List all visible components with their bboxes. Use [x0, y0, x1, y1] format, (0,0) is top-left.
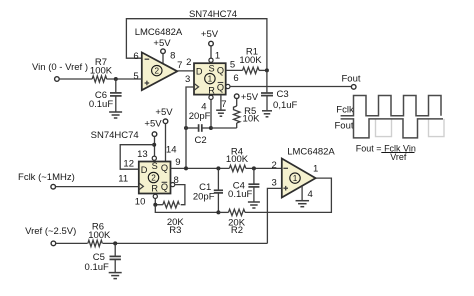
flip-flop U1a (SN74HC74 first half) — [194, 63, 226, 95]
wire U1 noninverting input to Vref rail — [267, 188, 281, 243]
svg-text:0.1uF: 0.1uF — [85, 262, 109, 273]
wire Vref to R6 — [56, 242, 88, 244]
svg-text:20pF: 20pF — [189, 111, 211, 122]
power +5V label for R5 — [241, 92, 259, 103]
svg-text:7: 7 — [177, 60, 182, 71]
pin 8 label U2 — [170, 51, 175, 62]
svg-text:0.1uF: 0.1uF — [89, 99, 113, 110]
resistor R2 — [218, 209, 245, 236]
pin 5 label U2 — [133, 71, 138, 82]
node junction R6/C5 — [113, 241, 117, 245]
node junction R3/R-pin — [153, 203, 157, 207]
svg-text:Vref (~2.5V): Vref (~2.5V) — [25, 226, 76, 237]
svg-text:1: 1 — [208, 75, 213, 84]
op-amp U1 — [282, 159, 316, 198]
svg-text:+5V: +5V — [241, 92, 259, 103]
power +5V terminal U1b S line — [152, 132, 157, 156]
wire pin10 node down to bottom rail — [155, 205, 218, 213]
svg-text:Vref: Vref — [390, 152, 407, 162]
wire U1a Q to R1 — [226, 69, 243, 71]
svg-text:+5V: +5V — [153, 38, 171, 49]
svg-text:+5V: +5V — [144, 119, 162, 130]
resistor R7 — [90, 57, 113, 82]
ground U1a pin 7 — [216, 95, 226, 117]
wire U1a R pin down — [210, 100, 212, 129]
input terminal Vref — [25, 226, 76, 246]
wire U1b D to S-line loop — [120, 145, 154, 170]
power +5V terminal U1b pin 14 — [163, 119, 168, 162]
wire R3 to U1b R pin — [155, 199, 163, 205]
svg-text:0,1uF: 0,1uF — [273, 100, 297, 111]
svg-text:Fout: Fout — [341, 73, 360, 84]
svg-text:20pF: 20pF — [193, 192, 215, 203]
pin 14 label U1b — [166, 145, 177, 156]
pin 5 label U1a Q — [230, 60, 235, 71]
node junction D-loop/S line — [152, 143, 156, 147]
pin 11 label U1b CLK — [118, 174, 128, 185]
svg-text:3: 3 — [185, 74, 190, 85]
waveform Fout square wave — [341, 119, 443, 138]
svg-text:8: 8 — [170, 51, 175, 62]
flip-flop U1b (SN74HC74 second half) — [139, 161, 171, 194]
svg-text:10K: 10K — [243, 113, 261, 124]
wire U1a Qbar to Fout — [230, 86, 351, 88]
capacitor C2 — [186, 111, 211, 146]
wire Fclk to U1b CLK — [56, 186, 139, 188]
waveform label Fclk — [336, 104, 354, 115]
capacitor C1 — [193, 168, 223, 212]
pin 2 label U1a D — [186, 57, 191, 68]
power +5V terminal R5 — [234, 94, 239, 99]
formula Fout = Fclk Vin / Vref — [356, 143, 416, 162]
input terminal Vin — [32, 62, 88, 81]
svg-text:100K: 100K — [90, 66, 113, 77]
node junction C1 bottom — [216, 210, 220, 214]
pin 2 label U1 — [272, 160, 277, 171]
wire clock line to U1a CLK — [186, 87, 194, 168]
svg-text:100K: 100K — [226, 154, 249, 165]
resistor R3 — [163, 202, 185, 236]
svg-text:13: 13 — [137, 149, 148, 160]
svg-text:Q: Q — [161, 182, 168, 192]
svg-text:7: 7 — [221, 99, 226, 110]
svg-text:9: 9 — [175, 157, 180, 168]
svg-text:5: 5 — [133, 71, 138, 82]
waveform Fout gated pulses (faint, skipped) — [376, 119, 445, 137]
wire U2 output to flip-flop U1a D input — [177, 70, 194, 72]
waveform Fclk square wave — [341, 96, 441, 116]
svg-text:100K: 100K — [239, 55, 262, 66]
pin 1 label U1 — [313, 164, 318, 175]
resistor R6 — [88, 221, 111, 246]
pin 13 label U1b — [137, 149, 148, 160]
ground below C3 — [262, 111, 272, 117]
svg-text:R: R — [208, 85, 215, 95]
svg-text:6: 6 — [233, 73, 238, 84]
pin 7 label U2 — [177, 60, 182, 71]
resistor R4 — [226, 146, 249, 171]
reset bubble U1a R input — [209, 95, 213, 99]
svg-text:Fclk (~1MHz): Fclk (~1MHz) — [18, 172, 75, 183]
svg-text:12: 12 — [123, 158, 134, 169]
node junction C1 top — [216, 166, 220, 170]
svg-text:Q: Q — [161, 163, 168, 173]
preset bubble U1a S input — [209, 58, 213, 62]
svg-text:SN74HC74: SN74HC74 — [91, 130, 139, 141]
node junction C2/clock line — [184, 126, 188, 130]
output bubble U1b Qbar — [171, 183, 175, 187]
svg-text:+5V: +5V — [201, 29, 219, 40]
node junction R1/C3/feedback — [265, 68, 269, 72]
pin 7 label U1a GND — [221, 99, 226, 110]
ground U1 pin 4 — [296, 186, 310, 207]
op-amp U1 label LMC6482A — [287, 146, 335, 157]
svg-text:C2: C2 — [195, 135, 207, 146]
svg-text:2: 2 — [155, 67, 160, 76]
node junction C4 top — [252, 166, 256, 170]
svg-text:10: 10 — [135, 197, 146, 208]
capacitor C4 — [228, 168, 259, 201]
wire U1b Q to op-amp U1 inverting input — [171, 167, 282, 169]
input terminal Fclk — [18, 172, 75, 189]
svg-text:R3: R3 — [169, 225, 181, 236]
svg-text:Q: Q — [217, 82, 224, 92]
svg-text:4: 4 — [308, 189, 313, 200]
wire R1 to feedback node — [259, 69, 267, 71]
svg-text:R: R — [151, 184, 158, 194]
svg-text:Q: Q — [217, 66, 224, 76]
svg-text:11: 11 — [118, 174, 128, 185]
pin 6 label U2 — [133, 51, 138, 62]
svg-text:5: 5 — [230, 60, 235, 71]
svg-text:1: 1 — [313, 164, 318, 175]
wire Vin to R7 — [59, 78, 92, 80]
resistor R1 — [239, 47, 262, 74]
power +5V terminal U2 pin 8 — [161, 49, 166, 64]
svg-text:3: 3 — [272, 177, 277, 188]
reset bubble U1b R input — [153, 194, 157, 198]
svg-text:Fout: Fout — [334, 120, 353, 131]
wire op-amp U2 inverting input feedback loop — [126, 19, 267, 71]
wire C2 node to R5 — [211, 127, 237, 129]
pin 6 label U1a Qbar — [233, 73, 238, 84]
svg-text:Fclk: Fclk — [336, 104, 354, 115]
waveform label Fout — [334, 120, 353, 131]
svg-text:6: 6 — [133, 51, 138, 62]
power +5V terminal U1a pin 1 — [209, 41, 214, 58]
svg-text:1: 1 — [215, 51, 220, 62]
svg-text:S: S — [152, 161, 158, 171]
svg-text:D: D — [141, 165, 148, 175]
svg-text:Vin (0 - Vref ): Vin (0 - Vref ) — [32, 62, 88, 73]
capacitor C5 — [85, 243, 121, 273]
svg-text:2: 2 — [272, 160, 277, 171]
svg-text:LMC6482A: LMC6482A — [135, 27, 183, 38]
power +5V label upper (U1b VCC) — [155, 107, 173, 118]
pin 10 label U1b R — [135, 197, 146, 208]
svg-text:1: 1 — [293, 174, 298, 183]
ground below C5 — [109, 273, 122, 279]
svg-text:14: 14 — [166, 145, 177, 156]
svg-text:2: 2 — [186, 57, 191, 68]
wire R7 to U2 noninverting input — [107, 78, 142, 80]
node junction R7/C6 — [114, 77, 118, 81]
pin 9 label U1b Q — [175, 157, 180, 168]
node junction C2/R-pin — [209, 126, 213, 130]
wire R6 to Vref rail end — [103, 242, 268, 244]
pin 4 label U1 — [308, 189, 313, 200]
power +5V label U1a preset — [201, 29, 219, 40]
pin 3 label U1a CLK — [185, 74, 190, 85]
capacitor C6 — [89, 79, 122, 112]
svg-text:Fout = Fclk Vin: Fout = Fclk Vin — [356, 143, 416, 153]
ground below C4 — [248, 202, 260, 208]
svg-text:100K: 100K — [88, 230, 111, 241]
op-amp U2 — [142, 52, 178, 90]
ground below C6 — [109, 112, 122, 118]
IC label SN74HC74 (second) — [91, 130, 139, 141]
pin 3 label U1 — [272, 177, 277, 188]
pin 4 label U1a R — [201, 102, 206, 113]
svg-text:C3: C3 — [277, 89, 289, 100]
capacitor C3 — [261, 70, 298, 111]
IC label SN74HC74 (top) — [189, 9, 237, 20]
svg-text:R2: R2 — [231, 225, 243, 236]
pin 1 label U1a — [215, 51, 220, 62]
op-amp U2 label LMC6482A — [135, 27, 183, 38]
svg-text:D: D — [196, 66, 203, 76]
svg-text:S: S — [209, 64, 215, 74]
svg-text:2: 2 — [151, 173, 156, 182]
svg-text:0.1uF: 0.1uF — [228, 189, 252, 200]
resistor R5 — [234, 99, 261, 129]
svg-text:+5V: +5V — [155, 107, 173, 118]
wire bottom rail R2 to op-amp U1 output — [245, 178, 331, 212]
svg-text:LMC6482A: LMC6482A — [287, 146, 335, 157]
power +5V label lower (U1b preset) — [144, 119, 162, 130]
node junction Q2/clock line — [184, 166, 188, 170]
output bubble U1a Qbar — [226, 84, 230, 88]
pin 8 label U1b Qbar — [174, 175, 179, 186]
preset bubble U1b S input — [152, 156, 156, 160]
power +5V label for U2 pin 8 — [153, 38, 171, 49]
output terminal Fout — [341, 73, 360, 89]
wire U1b Qbar to R3 — [175, 185, 185, 205]
pin 12 label U1b D — [123, 158, 134, 169]
